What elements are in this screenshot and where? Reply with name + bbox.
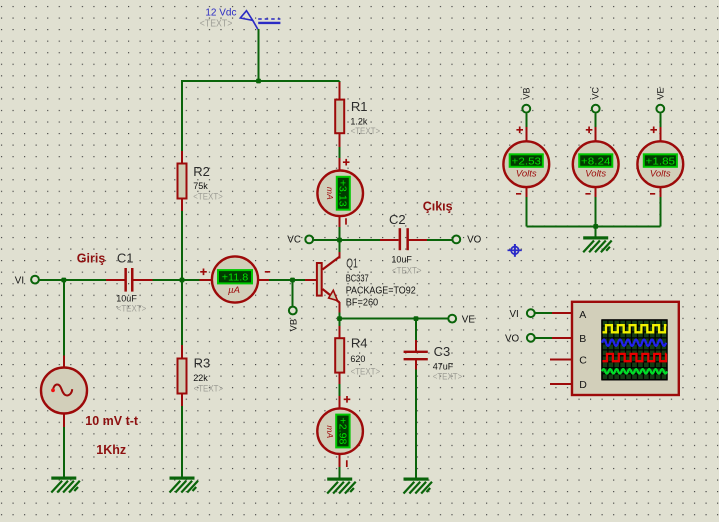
svg-text:+1.85: +1.85 bbox=[646, 155, 676, 167]
svg-text:BF=260: BF=260 bbox=[346, 298, 379, 309]
svg-text:C3: C3 bbox=[434, 344, 451, 359]
svg-text:C1: C1 bbox=[117, 251, 134, 266]
svg-text:Çıkış: Çıkış bbox=[423, 200, 453, 214]
svg-text:1Khz: 1Khz bbox=[96, 443, 126, 457]
svg-text:<TEXT>: <TEXT> bbox=[351, 126, 381, 137]
svg-text:Volts: Volts bbox=[585, 168, 606, 179]
svg-text:VO: VO bbox=[467, 235, 482, 246]
svg-text:75k: 75k bbox=[193, 181, 208, 191]
svg-text:+2.98: +2.98 bbox=[336, 418, 347, 445]
svg-text:VO: VO bbox=[505, 334, 520, 345]
svg-text:+11.8: +11.8 bbox=[222, 272, 249, 283]
svg-text:<TEXT>: <TEXT> bbox=[194, 384, 224, 395]
svg-text:10uF: 10uF bbox=[116, 294, 137, 304]
svg-text:<TEXT>: <TEXT> bbox=[433, 371, 463, 382]
svg-text:47uF: 47uF bbox=[433, 362, 454, 372]
svg-text:+2.53: +2.53 bbox=[512, 155, 542, 167]
svg-text:µA: µA bbox=[228, 285, 240, 296]
svg-text:R3: R3 bbox=[194, 356, 211, 371]
svg-text:R1: R1 bbox=[351, 99, 368, 114]
svg-text:R2: R2 bbox=[193, 164, 210, 179]
svg-text:VE: VE bbox=[655, 87, 665, 99]
svg-text:VI: VI bbox=[15, 275, 24, 286]
svg-text:<TEXT>: <TEXT> bbox=[200, 18, 233, 30]
svg-text:+3.13: +3.13 bbox=[337, 180, 348, 207]
svg-text:D: D bbox=[579, 379, 587, 391]
svg-text:<TEXT>: <TEXT> bbox=[392, 265, 422, 276]
svg-text:10uF: 10uF bbox=[391, 254, 412, 264]
svg-text:<TEXT>: <TEXT> bbox=[351, 367, 381, 378]
svg-text:VI: VI bbox=[510, 309, 519, 320]
svg-text:R4: R4 bbox=[351, 336, 368, 351]
svg-text:VE: VE bbox=[462, 315, 476, 326]
svg-text:VC: VC bbox=[287, 235, 301, 246]
svg-text:<TEXT>: <TEXT> bbox=[193, 192, 223, 203]
svg-text:Giriş: Giriş bbox=[77, 252, 106, 266]
svg-text:C: C bbox=[579, 355, 587, 367]
svg-text:mA: mA bbox=[325, 425, 335, 438]
svg-text:<TEXT>: <TEXT> bbox=[117, 304, 147, 315]
svg-text:B: B bbox=[579, 333, 586, 345]
svg-text:VB: VB bbox=[521, 87, 531, 99]
svg-text:620: 620 bbox=[350, 354, 365, 364]
svg-text:mA: mA bbox=[325, 187, 335, 200]
svg-text:VC: VC bbox=[591, 86, 601, 99]
svg-text:PACKAGE=TO92: PACKAGE=TO92 bbox=[346, 286, 416, 297]
svg-text:VB: VB bbox=[289, 319, 300, 332]
svg-text:A: A bbox=[579, 309, 586, 321]
svg-text:Q1: Q1 bbox=[346, 256, 358, 271]
svg-text:1.2k: 1.2k bbox=[350, 117, 368, 127]
svg-text:10 mV t-t: 10 mV t-t bbox=[85, 414, 139, 428]
svg-text:BC337: BC337 bbox=[346, 273, 369, 284]
svg-text:C2: C2 bbox=[389, 212, 406, 227]
svg-text:+8.24: +8.24 bbox=[581, 155, 611, 167]
svg-text:Volts: Volts bbox=[650, 168, 671, 179]
svg-text:22k: 22k bbox=[193, 373, 208, 383]
svg-text:Volts: Volts bbox=[516, 168, 537, 179]
